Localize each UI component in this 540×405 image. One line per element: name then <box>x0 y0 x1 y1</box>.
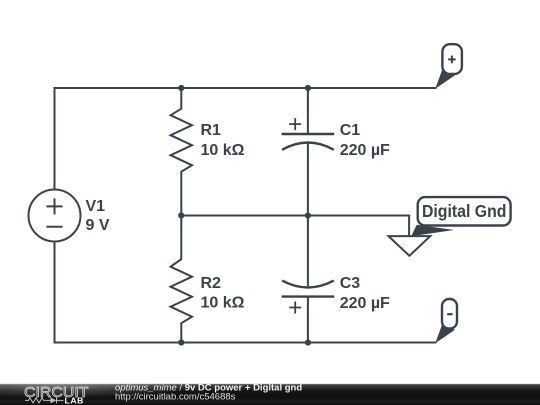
C3 plus polarity mark <box>289 307 301 309</box>
svg-text:C3: C3 <box>340 275 361 292</box>
node - terminal flag <box>435 299 457 343</box>
junction C1/C3 mid <box>305 212 311 218</box>
junction top of C1 <box>305 85 311 91</box>
svg-text:9 V: 9 V <box>86 217 110 234</box>
node + terminal flag <box>435 44 462 89</box>
resistor R1 <box>171 88 192 216</box>
resistor R2 <box>171 216 192 343</box>
svg-text:R1: R1 <box>201 122 222 139</box>
voltage source V1 <box>29 190 81 242</box>
svg-text:R2: R2 <box>201 275 222 292</box>
junction bottom C3 <box>305 339 311 345</box>
wire top horizontal <box>55 87 436 89</box>
svg-text:http://circuitlab.com/c54688s: http://circuitlab.com/c54688s <box>115 392 236 403</box>
wire ground lead vertical <box>408 216 410 237</box>
C1 plus polarity mark <box>289 123 301 125</box>
ground (Digital Gnd symbol) <box>389 236 431 256</box>
capacitor C3 <box>282 216 335 343</box>
wire left vertical upper <box>54 88 56 190</box>
wire middle horizontal <box>181 215 409 217</box>
svg-text:10 kΩ: 10 kΩ <box>201 142 245 159</box>
wire left vertical lower <box>54 242 56 343</box>
logo resistor-diode glyph <box>25 397 64 403</box>
junction top-left of R1 <box>178 85 184 91</box>
capacitor C1 <box>282 88 335 216</box>
node Digital Gnd flag <box>411 197 510 236</box>
svg-text:10 kΩ: 10 kΩ <box>201 295 245 312</box>
svg-text:220 µF: 220 µF <box>340 295 390 312</box>
junction bottom R2 <box>178 339 184 345</box>
svg-text:220 µF: 220 µF <box>340 142 390 159</box>
svg-text:Digital Gnd: Digital Gnd <box>422 201 507 221</box>
svg-text:C1: C1 <box>340 122 361 139</box>
wire bottom horizontal <box>55 342 436 344</box>
svg-text:LAB: LAB <box>65 396 84 405</box>
svg-text:V1: V1 <box>86 198 106 215</box>
junction R1/R2 mid <box>178 212 184 218</box>
